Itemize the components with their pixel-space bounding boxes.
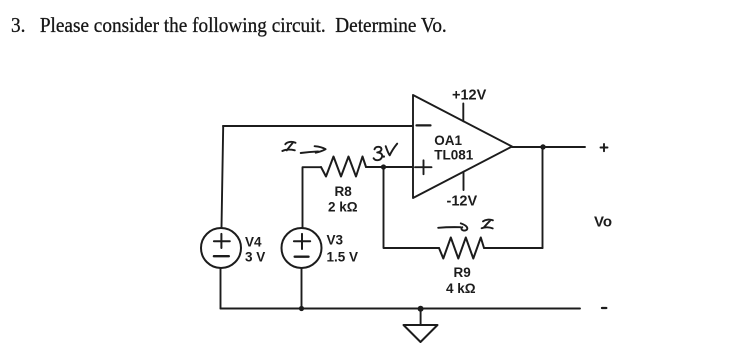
node junction at R8 right — [381, 164, 386, 169]
title text — [11, 13, 447, 38]
wire left vertical to V4 — [222, 126, 224, 228]
node junction V3 on ground bus — [299, 306, 304, 311]
wire top from node A to inverting input — [223, 125, 413, 127]
svg-text:+12V: +12V — [452, 88, 487, 104]
ground symbol — [404, 325, 438, 342]
node junction at output — [540, 144, 545, 149]
svg-text:R9: R9 — [454, 265, 471, 280]
resistor R8 — [321, 157, 366, 177]
handwritten current label I (left) — [282, 142, 295, 151]
svg-text:OA1: OA1 — [434, 133, 462, 148]
handwritten arrow (feedback) — [438, 223, 467, 230]
svg-text:-12V: -12V — [447, 193, 478, 209]
svg-text:3 V: 3 V — [245, 250, 265, 265]
negative supply pin stub — [463, 172, 465, 190]
svg-text:1.5 V: 1.5 V — [327, 249, 359, 264]
svg-text:Vo: Vo — [594, 214, 612, 231]
wire feedback bottom left segment — [384, 167, 440, 248]
positive supply pin stub — [462, 104, 464, 122]
output plus terminal — [601, 144, 608, 151]
svg-text:R8: R8 — [335, 184, 353, 199]
resistor R9 — [439, 238, 484, 259]
svg-text:TL081: TL081 — [434, 147, 474, 162]
wire V3 bottom stem — [301, 268, 303, 309]
wire R8 to non-inverting input — [366, 166, 413, 168]
op-amp OA1 — [413, 95, 512, 198]
svg-text:4 kΩ: 4 kΩ — [446, 281, 476, 296]
voltage source V4 — [201, 228, 241, 268]
wire ground stub — [420, 309, 422, 325]
handwritten arrow (left) — [301, 146, 326, 153]
voltage source V3 — [282, 228, 322, 268]
handwritten node voltage 3V — [374, 147, 383, 160]
inverting input minus sign — [417, 124, 431, 126]
svg-text:V3: V3 — [327, 233, 344, 248]
non-inverting input plus sign — [415, 160, 432, 174]
node junction ground stub — [418, 306, 424, 312]
wire R9 to right vertical — [484, 247, 543, 249]
svg-text:2 kΩ: 2 kΩ — [328, 199, 358, 214]
wire V3 top stem up to R8 left — [303, 167, 322, 228]
output minus terminal — [602, 307, 606, 309]
svg-text:V4: V4 — [245, 235, 262, 250]
handwritten current label I (feedback) — [482, 220, 493, 229]
wire V4 bottom stem — [220, 268, 222, 309]
wire feedback right vertical — [542, 147, 544, 248]
wire output — [512, 146, 585, 148]
wire ground bus — [221, 308, 581, 310]
